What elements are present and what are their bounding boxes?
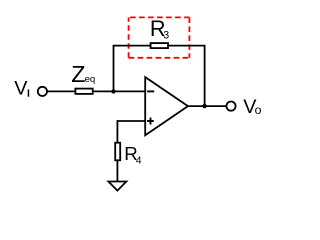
svg-text:o: o [255,103,262,117]
svg-text:V: V [14,78,28,100]
svg-text:Z: Z [71,61,85,87]
svg-text:eq: eq [85,74,96,85]
svg-text:3: 3 [163,30,169,42]
svg-text:4: 4 [136,155,142,166]
